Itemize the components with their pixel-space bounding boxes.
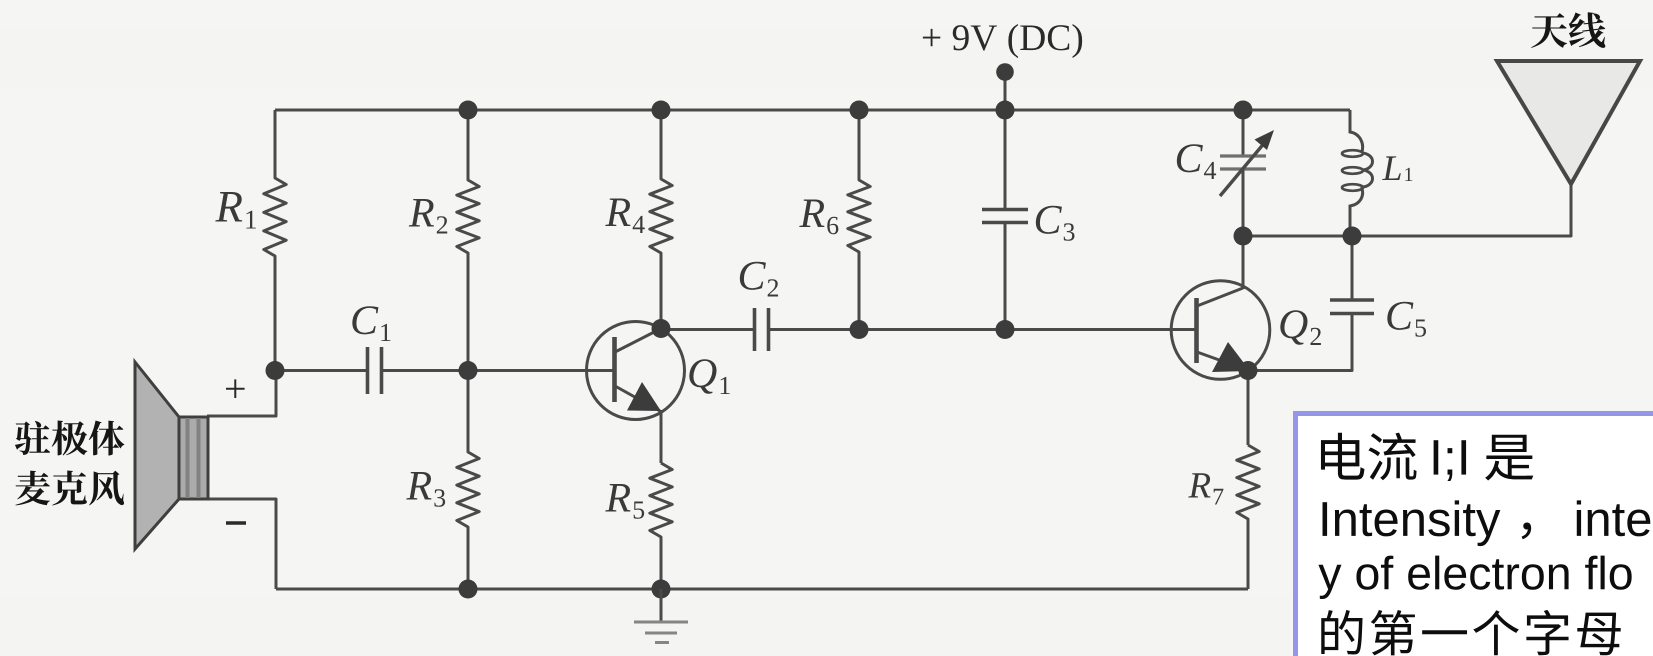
wire top supply rail — [275, 109, 1350, 112]
label 9V supply — [923, 24, 1082, 58]
wire mic plus lead — [207, 371, 276, 417]
label R7 — [1188, 473, 1210, 497]
node junction — [266, 361, 285, 380]
transistor Q1 — [587, 322, 685, 420]
wire C2 to Q2 base — [769, 328, 1198, 331]
node junction — [1239, 361, 1258, 380]
label mic plus — [226, 379, 245, 398]
wire mic minus lead — [207, 499, 276, 589]
capacitor C2 — [755, 308, 769, 351]
note text line 1 cjk2 — [1485, 435, 1533, 481]
label antenna — [1531, 12, 1605, 48]
antenna symbol — [1497, 61, 1640, 184]
wire 9V stem — [1004, 72, 1007, 110]
note text line 1 latin — [1434, 440, 1466, 481]
node junction — [850, 320, 869, 339]
label R5 — [605, 484, 630, 512]
label R1 — [215, 192, 242, 221]
note box — [1296, 414, 1653, 656]
wire C1 left segment — [275, 369, 368, 372]
capacitor C3 — [982, 110, 1028, 330]
node junction — [1343, 227, 1362, 246]
wire Q2 collector column — [1242, 236, 1245, 289]
label C5 — [1387, 302, 1413, 330]
note text line 2 latin — [1323, 500, 1501, 546]
label mic minus — [226, 521, 246, 524]
resistor R2 — [457, 110, 479, 371]
label C4 — [1177, 144, 1203, 172]
label Q1 — [689, 359, 716, 394]
label C1 — [352, 306, 378, 334]
node junction — [652, 580, 671, 599]
label R4 — [605, 198, 630, 226]
label C2 — [740, 262, 766, 290]
note text line 3 — [1318, 556, 1631, 599]
label C3 — [1036, 206, 1062, 234]
node junction — [996, 320, 1015, 339]
node junction — [459, 361, 478, 380]
note text line 2 latin2 — [1577, 500, 1651, 536]
resistor R7 — [1237, 445, 1259, 589]
wire Q2 emitter to R7 — [1247, 371, 1250, 446]
note text line 1 cjk — [1321, 433, 1417, 481]
resistor R6 — [848, 110, 870, 329]
node junction — [1234, 101, 1253, 120]
resistor R5 — [650, 463, 672, 589]
label L1 — [1382, 156, 1401, 180]
note text line 4 — [1321, 610, 1620, 655]
node junction — [459, 580, 478, 599]
node junction — [1234, 227, 1253, 246]
wire mid line collector to C2 — [661, 328, 755, 331]
node junction — [652, 319, 671, 338]
wire Q1 emitter column — [660, 410, 663, 463]
node junction — [652, 101, 671, 120]
resistor R4 — [650, 110, 672, 329]
resistor R3 — [457, 371, 479, 590]
wire tank rail to antenna — [1243, 184, 1571, 236]
label R6 — [799, 199, 824, 227]
wire bottom rail — [276, 588, 1248, 591]
transistor Q2 — [1171, 281, 1270, 380]
node junction — [996, 101, 1015, 120]
capacitor C4 variable — [1220, 110, 1266, 236]
resistor R1 — [264, 110, 286, 371]
node junction — [459, 101, 478, 120]
wire C5 bottom leg to emitter node — [1248, 314, 1352, 371]
label mic name line 1 — [15, 421, 125, 456]
node junction — [850, 101, 869, 120]
capacitor C1 — [368, 347, 382, 394]
label mic name line 2 — [15, 471, 124, 506]
microphone speaker symbol — [135, 362, 208, 549]
capacitor C5 — [1330, 236, 1374, 314]
inductor L1 — [1342, 110, 1373, 236]
note text line 2 comma — [1522, 522, 1532, 539]
wire C1 right segment to Q1 base — [382, 369, 617, 372]
label R2 — [409, 199, 434, 227]
node 9V terminal — [996, 63, 1014, 81]
label R3 — [406, 472, 431, 500]
ground — [634, 589, 688, 643]
label Q2 — [1280, 310, 1307, 345]
